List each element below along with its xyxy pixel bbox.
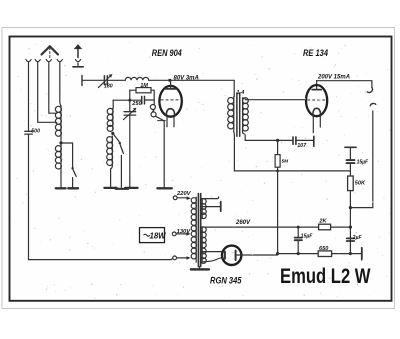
svg-text:2K: 2K — [318, 218, 327, 224]
svg-text:260V: 260V — [235, 220, 251, 226]
svg-text:15µF: 15µF — [301, 234, 313, 240]
svg-text:250: 250 — [131, 101, 142, 107]
svg-text:200V 15mA: 200V 15mA — [317, 74, 350, 80]
svg-text:15µF: 15µF — [357, 160, 369, 166]
svg-text:RE 134: RE 134 — [303, 48, 328, 58]
svg-text:Emud L2 W: Emud L2 W — [280, 265, 371, 288]
svg-text:REN 904: REN 904 — [152, 48, 182, 58]
svg-text:500: 500 — [31, 128, 40, 134]
svg-text:80V 3mA: 80V 3mA — [174, 75, 199, 81]
svg-text:130V: 130V — [177, 229, 192, 235]
svg-text:220V: 220V — [176, 191, 192, 197]
svg-text:107: 107 — [297, 143, 307, 149]
svg-text:5M: 5M — [282, 159, 290, 165]
svg-text:RGN 345: RGN 345 — [210, 275, 242, 285]
svg-text:1-4: 1-4 — [237, 90, 245, 96]
svg-text:650: 650 — [319, 246, 329, 252]
svg-text:1M: 1M — [140, 83, 148, 89]
svg-text:18W: 18W — [150, 232, 167, 241]
svg-text:2µF: 2µF — [352, 235, 363, 241]
svg-text:50K: 50K — [355, 181, 366, 187]
svg-text:180: 180 — [104, 84, 113, 90]
